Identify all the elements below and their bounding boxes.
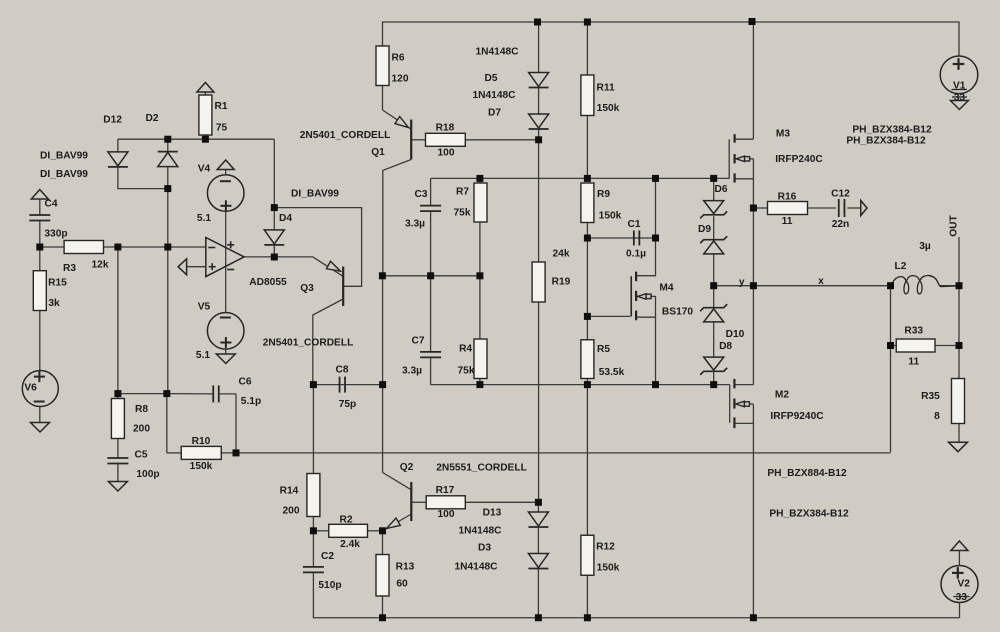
svg-text:C7: C7 [411, 335, 424, 346]
svg-text:R13: R13 [396, 562, 415, 573]
svg-text:C6: C6 [238, 377, 251, 388]
svg-text:100p: 100p [136, 469, 159, 480]
svg-text:12k: 12k [92, 260, 109, 271]
svg-text:R15: R15 [48, 278, 67, 289]
svg-text:M2: M2 [775, 390, 789, 401]
svg-text:R16: R16 [778, 192, 797, 203]
svg-text:R12: R12 [596, 542, 615, 553]
svg-text:2.4k: 2.4k [340, 539, 360, 550]
svg-text:PH_BZX884-B12: PH_BZX884-B12 [767, 468, 847, 479]
svg-text:DI_BAV99: DI_BAV99 [291, 189, 339, 200]
svg-text:150k: 150k [597, 103, 620, 114]
svg-text:75: 75 [216, 123, 228, 134]
svg-text:D12: D12 [103, 115, 122, 126]
svg-text:R11: R11 [597, 83, 615, 94]
svg-text:D10: D10 [726, 329, 745, 340]
svg-text:R18: R18 [436, 122, 455, 133]
svg-text:75k: 75k [454, 208, 471, 219]
svg-text:75k: 75k [458, 365, 475, 376]
svg-text:2N5401_CORDELL: 2N5401_CORDELL [300, 130, 391, 141]
svg-text:200: 200 [133, 424, 150, 435]
svg-text:R8: R8 [135, 404, 148, 415]
svg-text:R4: R4 [459, 344, 472, 355]
svg-text:D8: D8 [719, 341, 732, 352]
svg-text:V5: V5 [198, 302, 211, 313]
svg-text:R14: R14 [280, 486, 299, 497]
svg-text:200: 200 [283, 506, 300, 517]
svg-text:y: y [739, 277, 745, 288]
svg-text:60: 60 [396, 579, 408, 590]
svg-text:1N4148C: 1N4148C [458, 526, 502, 537]
svg-text:C5: C5 [134, 450, 147, 461]
svg-text:DI_BAV99: DI_BAV99 [40, 169, 88, 180]
svg-text:R35: R35 [921, 391, 940, 402]
svg-text:C3: C3 [414, 189, 427, 200]
svg-text:1N4148C: 1N4148C [454, 562, 498, 573]
svg-text:0.1µ: 0.1µ [626, 249, 646, 260]
svg-text:PH_BZX384-B12: PH_BZX384-B12 [769, 509, 849, 520]
svg-text:R17: R17 [436, 485, 455, 496]
svg-text:IRFP9240C: IRFP9240C [770, 411, 824, 422]
svg-text:D6: D6 [714, 184, 727, 195]
svg-text:3µ: 3µ [919, 241, 931, 252]
svg-text:75p: 75p [339, 399, 357, 410]
svg-text:100: 100 [438, 509, 455, 520]
svg-text:3.3µ: 3.3µ [402, 365, 422, 376]
svg-text:x: x [818, 276, 824, 287]
svg-text:D3: D3 [478, 543, 491, 554]
svg-text:C12: C12 [831, 189, 850, 200]
svg-text:PH_BZX384-B12: PH_BZX384-B12 [846, 136, 926, 147]
svg-text:R9: R9 [597, 189, 610, 200]
svg-text:Q3: Q3 [300, 283, 314, 294]
svg-text:8: 8 [934, 411, 940, 422]
svg-text:BS170: BS170 [662, 307, 693, 318]
svg-text:2N5551_CORDELL: 2N5551_CORDELL [436, 463, 527, 474]
svg-text:Q2: Q2 [400, 462, 414, 473]
svg-text:11: 11 [782, 216, 793, 227]
svg-text:R6: R6 [391, 53, 404, 64]
svg-text:D13: D13 [483, 508, 502, 519]
svg-text:D9: D9 [698, 224, 711, 235]
svg-text:510p: 510p [318, 580, 341, 591]
svg-text:150k: 150k [190, 461, 213, 472]
svg-text:5.1: 5.1 [197, 213, 211, 224]
svg-text:1N4148C: 1N4148C [475, 47, 519, 58]
svg-text:5.1: 5.1 [196, 350, 210, 361]
svg-text:R10: R10 [192, 436, 211, 447]
svg-text:AD8055: AD8055 [249, 277, 287, 288]
svg-text:1N4148C: 1N4148C [472, 90, 516, 101]
svg-text:22n: 22n [832, 219, 850, 230]
svg-text:R1: R1 [214, 101, 227, 112]
svg-text:R5: R5 [597, 344, 610, 355]
svg-text:120: 120 [392, 74, 409, 85]
svg-text:11: 11 [908, 357, 919, 368]
svg-text:2N5401_CORDELL: 2N5401_CORDELL [263, 338, 354, 349]
svg-text:150k: 150k [599, 211, 622, 222]
svg-text:53.5k: 53.5k [599, 367, 625, 378]
svg-text:330p: 330p [44, 229, 67, 240]
svg-text:IRFP240C: IRFP240C [775, 154, 823, 165]
svg-text:3.3µ: 3.3µ [405, 219, 425, 230]
svg-text:D5: D5 [484, 73, 497, 84]
svg-text:C1: C1 [627, 219, 640, 230]
svg-text:OUT: OUT [949, 214, 960, 236]
svg-text:R2: R2 [339, 515, 352, 526]
svg-text:Q1: Q1 [371, 147, 385, 158]
svg-text:D7: D7 [488, 108, 501, 119]
svg-text:V6: V6 [24, 382, 37, 393]
svg-text:R33: R33 [904, 325, 923, 336]
svg-text:V4: V4 [198, 164, 211, 175]
svg-text:L2: L2 [895, 261, 907, 272]
svg-text:C8: C8 [335, 365, 348, 376]
svg-text:R19: R19 [552, 277, 571, 288]
svg-text:D2: D2 [145, 113, 158, 124]
svg-text:3k: 3k [48, 298, 60, 309]
svg-text:33: 33 [956, 592, 968, 603]
svg-text:R7: R7 [456, 187, 469, 198]
svg-text:100: 100 [438, 148, 455, 159]
svg-text:33: 33 [954, 93, 966, 104]
svg-text:DI_BAV99: DI_BAV99 [40, 151, 88, 162]
svg-text:R3: R3 [63, 263, 76, 274]
svg-text:D4: D4 [279, 213, 292, 224]
svg-text:C4: C4 [44, 199, 57, 210]
svg-text:150k: 150k [597, 563, 620, 574]
svg-text:M4: M4 [659, 283, 673, 294]
svg-text:V2: V2 [958, 579, 971, 590]
svg-text:M3: M3 [776, 129, 790, 140]
svg-text:5.1p: 5.1p [241, 396, 261, 407]
svg-text:PH_BZX384-B12: PH_BZX384-B12 [852, 125, 932, 136]
svg-text:C2: C2 [321, 551, 334, 562]
svg-text:24k: 24k [553, 249, 570, 260]
